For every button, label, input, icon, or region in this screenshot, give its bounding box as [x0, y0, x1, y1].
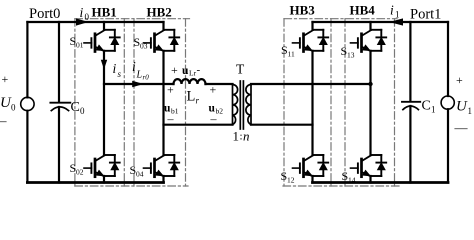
- svg-text:b2: b2: [216, 107, 224, 116]
- svg-text:Port0: Port0: [29, 6, 60, 22]
- right bridge dashed box top edge: [284, 18, 397, 20]
- svg-text:1: 1: [431, 105, 436, 115]
- svg-text:–: –: [210, 112, 218, 126]
- source U1 circle: [441, 96, 454, 109]
- HB1 dashed enclosure: [75, 19, 124, 186]
- arrow iLr0: [132, 81, 143, 87]
- svg-text:11: 11: [288, 50, 295, 59]
- svg-text:03: 03: [140, 42, 148, 51]
- source U0 circle: [21, 97, 34, 110]
- HB3 dashed enclosure: [284, 19, 331, 186]
- wire: right top rail: [313, 21, 449, 23]
- transistor S01: [84, 30, 120, 52]
- svg-text:L: L: [136, 70, 143, 81]
- svg-text:i: i: [132, 59, 136, 74]
- svg-text:n: n: [243, 129, 250, 144]
- HB2 leg: [162, 22, 164, 183]
- transistor S12: [293, 155, 329, 177]
- junction dot: [368, 82, 372, 86]
- svg-text:s: s: [118, 69, 122, 79]
- transistor S02: [84, 155, 120, 177]
- svg-text:+: +: [167, 83, 174, 97]
- svg-text:1: 1: [395, 10, 400, 20]
- svg-text:01: 01: [76, 41, 84, 50]
- svg-text:+: +: [456, 73, 463, 87]
- svg-text:–: –: [167, 112, 175, 126]
- wire: secondary top to HB4 mid: [251, 83, 371, 85]
- capacitor C1: [402, 101, 420, 103]
- HB2 dashed enclosure: [134, 19, 186, 186]
- transformer T primary winding: [232, 84, 234, 125]
- svg-text:u: u: [182, 65, 189, 77]
- svg-text:Lr: Lr: [189, 69, 197, 78]
- svg-text:–: –: [0, 113, 7, 128]
- right bridge dashed box bottom edge: [283, 185, 400, 187]
- svg-text:Port1: Port1: [410, 7, 441, 23]
- svg-text:+: +: [2, 72, 9, 86]
- transistor S11: [293, 30, 329, 52]
- left bridge dashed box top edge: [75, 18, 190, 20]
- svg-text:1: 1: [233, 129, 240, 144]
- svg-text:0: 0: [85, 12, 90, 22]
- svg-text:+: +: [171, 63, 178, 77]
- svg-text:L: L: [187, 89, 196, 105]
- wire: right bottom rail: [313, 181, 449, 184]
- inductor Lr: [174, 79, 206, 84]
- wire: left bottom rail: [27, 181, 163, 184]
- HB4 dashed enclosure: [345, 19, 395, 186]
- HB3 leg: [311, 22, 313, 183]
- transistor S14: [351, 155, 387, 177]
- svg-text:+: +: [210, 83, 217, 97]
- arrow i1: [389, 18, 403, 25]
- transistor S13: [351, 30, 387, 52]
- svg-text:0: 0: [80, 106, 85, 116]
- transformer T secondary winding: [250, 84, 252, 125]
- transistor S04: [144, 155, 180, 177]
- HB4 leg: [369, 22, 371, 183]
- arrow is: [101, 60, 107, 70]
- svg-text:r0: r0: [143, 74, 150, 82]
- svg-text:HB3: HB3: [290, 3, 316, 18]
- svg-text:12: 12: [287, 176, 295, 185]
- svg-text:14: 14: [348, 176, 356, 185]
- svg-text:i: i: [113, 61, 117, 76]
- svg-text:i: i: [80, 5, 84, 20]
- svg-text:1: 1: [468, 106, 473, 116]
- svg-text:HB4: HB4: [350, 3, 376, 18]
- wire: C1 branch: [409, 22, 411, 183]
- left bridge dashed box bottom edge: [75, 185, 188, 187]
- wire: port1 right rail: [447, 22, 449, 183]
- wire: port0 left rail: [26, 22, 28, 183]
- capacitor C0: [50, 102, 70, 104]
- wire A: HB1 mid to transformer primary top: [104, 83, 174, 85]
- transformer core: [239, 81, 241, 129]
- wire: C0 branch: [58, 22, 60, 183]
- svg-text:C: C: [71, 100, 80, 115]
- svg-text:0: 0: [11, 103, 16, 113]
- wire: secondary bottom to HB3 mid: [251, 124, 313, 126]
- svg-text:-: -: [197, 64, 201, 76]
- svg-text:HB2: HB2: [147, 5, 172, 20]
- transistor S03: [144, 30, 180, 52]
- svg-text:U: U: [456, 99, 468, 115]
- svg-text:04: 04: [136, 170, 144, 179]
- svg-text:C: C: [422, 99, 431, 114]
- wire B: HB2 mid to transformer primary bottom: [164, 124, 233, 126]
- svg-text:HB1: HB1: [92, 5, 117, 20]
- svg-text:—: —: [454, 120, 469, 135]
- svg-text:13: 13: [347, 51, 355, 60]
- arrow i0: [76, 18, 89, 25]
- svg-text:02: 02: [76, 168, 84, 177]
- HB1 leg: [103, 22, 105, 183]
- svg-text:r: r: [196, 96, 200, 106]
- svg-text:i: i: [390, 3, 394, 18]
- svg-text:T: T: [236, 62, 245, 77]
- wire: left top rail: [27, 21, 163, 23]
